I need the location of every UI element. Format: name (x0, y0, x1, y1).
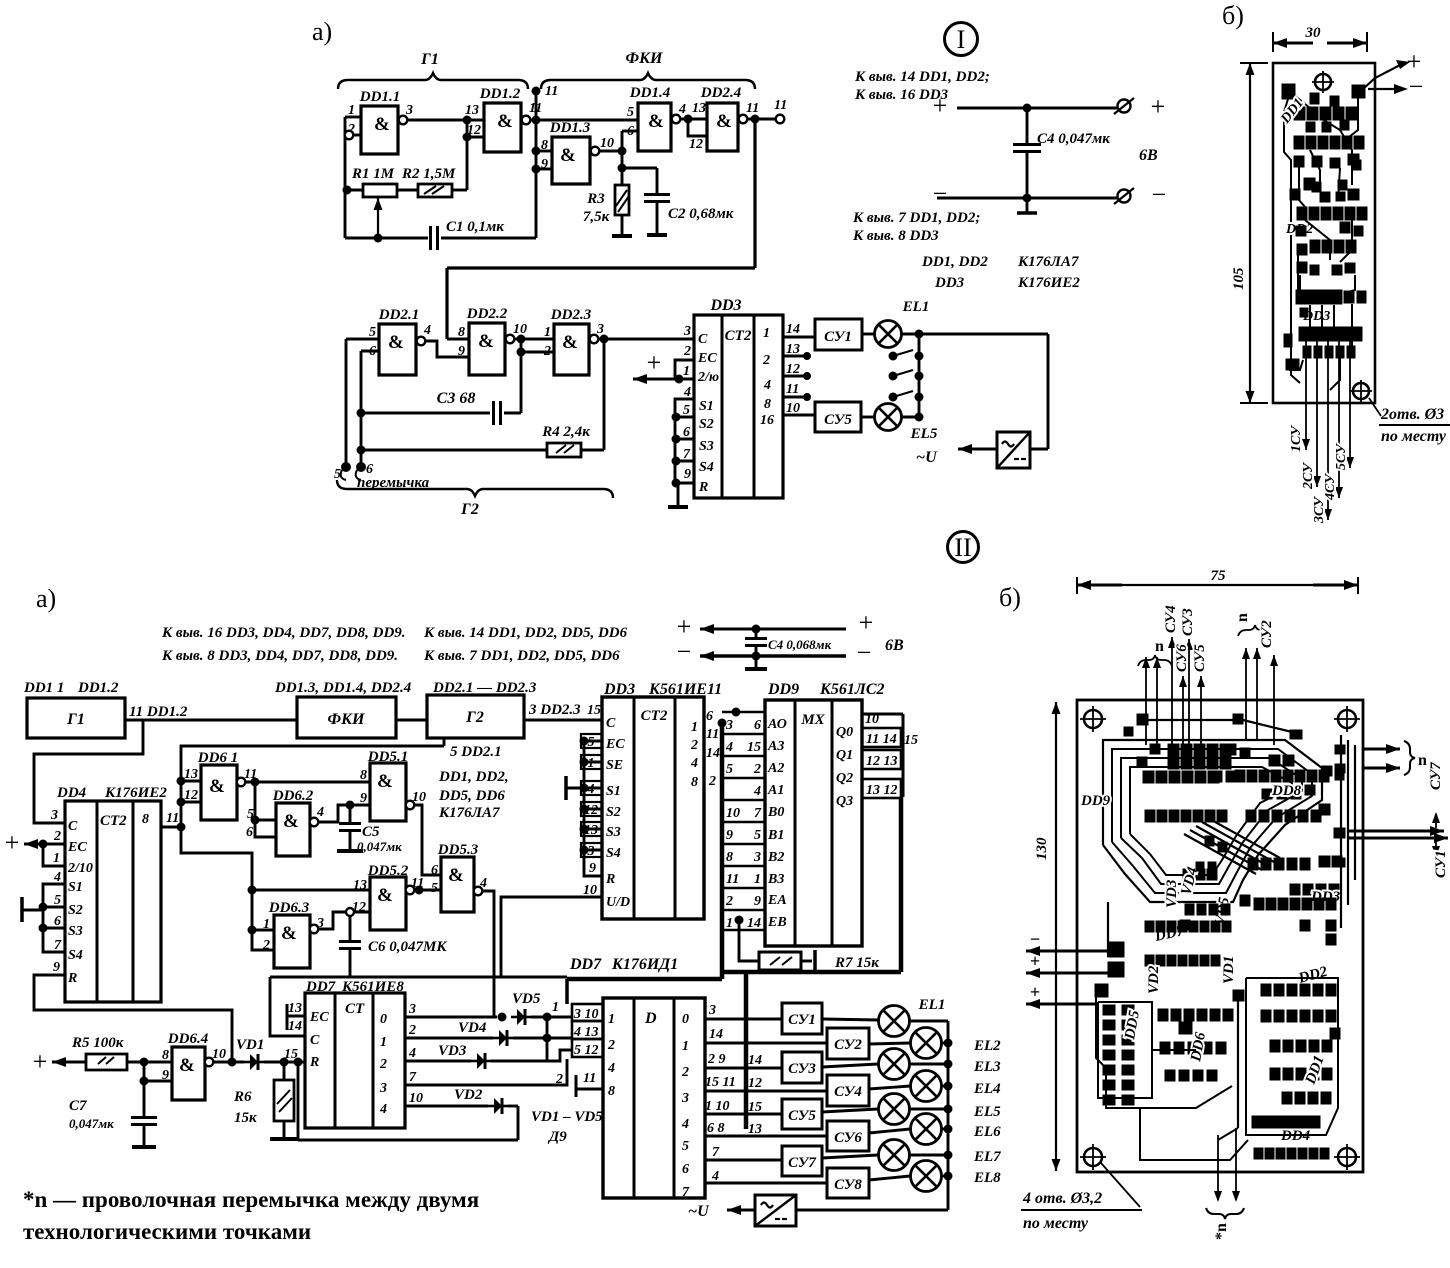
node pin15 (280, 1058, 288, 1066)
PCB I DD2 pads row1 (1297, 207, 1307, 220)
lamp EL1 (862, 299, 929, 348)
svg-text:2: 2 (683, 344, 691, 359)
svg-text:SE: SE (606, 758, 623, 773)
contact rail (918, 334, 921, 417)
svg-text:&: & (562, 332, 578, 353)
lamp EL4 (869, 1071, 1001, 1102)
svg-text:К выв. 14 DD1, DD2, DD5, DD: К выв. 14 DD1, DD2, DD5, DD6 (423, 625, 628, 641)
wire G2 pin5 net (443, 738, 446, 746)
PCB II pads row c (1145, 810, 1155, 822)
svg-text:DD1.4: DD1.4 (629, 85, 671, 101)
svg-text:а): а) (36, 584, 56, 613)
svg-text:DD4: DD4 (56, 785, 87, 801)
PCB II n brace top right (1238, 625, 1272, 636)
node DD2.3 out (598, 338, 694, 341)
gate DD2.2 (458, 306, 527, 375)
jog to DD2.4 pin12 (688, 119, 707, 136)
svg-text:4СУ: 4СУ (1323, 472, 1338, 501)
G2 brace (337, 480, 613, 498)
PCB II bottom arrows (1217, 1135, 1219, 1200)
gate DD6.1 (184, 750, 257, 820)
svg-text:ЕА: ЕА (767, 893, 787, 908)
svg-text:S1: S1 (606, 784, 621, 799)
svg-text:С1 0,1мк: С1 0,1мк (446, 219, 504, 235)
svg-text:R2 1,5М: R2 1,5М (401, 166, 456, 182)
svg-text:105: 105 (1231, 267, 1247, 290)
lamp EL2 (869, 1028, 1001, 1059)
PCB II DD6 pads (1158, 1009, 1168, 1021)
svg-text:&: & (448, 865, 464, 886)
svg-text:8: 8 (360, 768, 367, 783)
PCB II dim 130 (1055, 702, 1057, 736)
svg-text:С3 68: С3 68 (437, 390, 476, 407)
PCB II DD9 pads b (1143, 771, 1154, 783)
svg-text:DD1.3, DD1.4, DD2.4: DD1.3, DD1.4, DD2.4 (274, 680, 412, 696)
svg-text:2: 2 (53, 829, 61, 844)
svg-text:a): a) (312, 17, 332, 46)
svg-text:R5 100к: R5 100к (71, 1035, 124, 1051)
svg-text:C2 0,68мк: C2 0,68мк (668, 206, 734, 222)
svg-text:14: 14 (747, 916, 761, 931)
svg-text:DD5.1: DD5.1 (367, 749, 408, 765)
DD4 R return wire (34, 975, 232, 1062)
svg-text:DD9: DD9 (767, 681, 799, 698)
svg-text:7: 7 (682, 1185, 690, 1200)
svg-text:DD2.3: DD2.3 (550, 307, 592, 323)
svg-text:&: & (497, 111, 513, 132)
DD4 tbar (20, 897, 24, 922)
capacitor C1 0,1mk (345, 169, 536, 250)
PCB II star n brace (1206, 1208, 1244, 1219)
gate DD2.3 (543, 307, 604, 375)
svg-text:1: 1 (754, 872, 761, 887)
svg-text:−: − (1152, 180, 1167, 209)
svg-text:СУ6: СУ6 (1174, 644, 1190, 672)
svg-text:1 10: 1 10 (705, 1099, 730, 1114)
resistor R4 2,4k (357, 339, 604, 457)
block SU8 (827, 1168, 869, 1198)
svg-text:3: 3 (753, 850, 761, 865)
svg-text:14: 14 (786, 322, 800, 337)
svg-text:−: − (1409, 72, 1424, 101)
potentiometer arrow R1 (377, 198, 379, 236)
gate DD2.1 (369, 307, 431, 375)
svg-text:S2: S2 (606, 805, 621, 820)
svg-text:9: 9 (162, 1068, 169, 1083)
svg-text:2: 2 (408, 1023, 416, 1038)
svg-text:11: 11 (746, 101, 759, 116)
wire DD5.2 pin13 (252, 889, 370, 892)
DD4 EC bracket (43, 844, 65, 866)
svg-text:EL5: EL5 (910, 426, 938, 442)
counter DD3 K176IE2 (694, 297, 783, 498)
svg-text:11 14: 11 14 (866, 732, 897, 747)
PCB I DD2 pads row2 (1310, 240, 1320, 253)
PCB II n brace top left (1138, 655, 1172, 666)
svg-text:+: + (1030, 982, 1040, 1002)
svg-text:2: 2 (379, 1057, 387, 1072)
svg-text:16: 16 (760, 413, 774, 428)
wire DD1.2 out rail (530, 119, 638, 122)
PCB II board outline (1077, 700, 1363, 1172)
resistor R3 7,5k (583, 151, 632, 236)
svg-text:СУ1: СУ1 (824, 329, 852, 345)
svg-text:5: 5 (682, 1139, 689, 1154)
svg-text:15: 15 (587, 703, 601, 718)
svg-text:&: & (281, 923, 297, 944)
bus verticals DD9 region (720, 723, 725, 979)
lamp EL3 (822, 1049, 1001, 1080)
jog DD6.2 out to DD5.1 pin9 (318, 805, 370, 822)
svg-text:S3: S3 (606, 825, 621, 840)
wire EL5 junction (901, 416, 919, 419)
contact row 2 (889, 372, 897, 380)
svg-text:11: 11 (583, 1071, 596, 1086)
svg-text:1: 1 (763, 326, 770, 341)
DD7 output row0 wire (405, 1016, 497, 1019)
PCB I extra pads (1306, 122, 1315, 132)
PCB I dim 30 (1272, 32, 1274, 52)
PCB II hole top left (1084, 710, 1102, 728)
svg-text:14: 14 (748, 1053, 762, 1068)
svg-text:DD1, DD2: DD1, DD2 (921, 254, 988, 270)
svg-text:9: 9 (458, 344, 465, 359)
svg-text:2СУ: 2СУ (1301, 461, 1316, 490)
PCB I trace top (1284, 99, 1300, 383)
DD3 ground stub (677, 483, 680, 506)
SU row0 wire (705, 1018, 782, 1021)
svg-text:СУ3: СУ3 (788, 1061, 816, 1077)
svg-text:9: 9 (589, 861, 596, 876)
wire DD1.1 out to DD1.2 (407, 119, 484, 122)
PCB I DD1 pads row1 (1294, 107, 1305, 120)
svg-text:11: 11 (786, 382, 799, 397)
svg-text:ЕВ: ЕВ (767, 915, 787, 930)
svg-text:СУ1: СУ1 (1433, 850, 1449, 878)
decoder DD7 K176ID1 (569, 956, 705, 1200)
PCB I hole top (1315, 74, 1331, 90)
svg-text:1: 1 (682, 1039, 689, 1054)
gate DD2.4 (700, 85, 759, 151)
svg-text:&: & (478, 331, 494, 352)
DD4 S brackets (43, 884, 65, 907)
block SU5 II (782, 1099, 822, 1129)
counter DD4 K176IE2 (56, 785, 167, 1002)
svg-text:4: 4 (763, 378, 771, 393)
svg-text:DD3: DD3 (934, 275, 965, 291)
DD4 output 11 (161, 826, 183, 829)
svg-text:R: R (605, 872, 615, 887)
power converter II (755, 1195, 796, 1226)
C4 II ground (755, 656, 758, 668)
svg-text:3: 3 (405, 103, 413, 118)
lamp rail II (947, 1021, 950, 1210)
gate DD5.2 (352, 863, 424, 930)
node DD2.2 out (514, 338, 554, 341)
svg-text:9: 9 (684, 467, 691, 482)
DD9 Q out wires (901, 736, 903, 739)
svg-text:DD6.4: DD6.4 (167, 1031, 209, 1047)
svg-text:0: 0 (682, 1012, 689, 1027)
block SU5 (815, 402, 861, 432)
svg-text:S2: S2 (699, 417, 714, 432)
lamp EL1 II (822, 997, 948, 1037)
PCB II hole bottom right (1338, 1148, 1356, 1166)
svg-text:4: 4 (408, 1046, 416, 1061)
svg-text:EL2: EL2 (973, 1038, 1001, 1054)
PCB II pads row e (1248, 858, 1258, 870)
PCB II hole top right (1338, 710, 1356, 728)
svg-text:&: & (209, 776, 225, 797)
svg-text:R: R (698, 480, 708, 495)
svg-text:МХ: МХ (800, 712, 825, 728)
svg-text:VD4: VD4 (458, 1020, 487, 1036)
SU row3 wire (705, 1090, 827, 1093)
svg-text:1СУ: 1СУ (1289, 424, 1304, 452)
wire to DD4 C (34, 720, 143, 823)
svg-text:3: 3 (379, 1081, 387, 1096)
PCB II hole bottom left (1084, 1148, 1102, 1166)
PCB II top rail trace (1141, 719, 1238, 721)
lamp EL5 II (822, 1094, 1001, 1125)
SU row4 wire (705, 1113, 782, 1116)
svg-text:5: 5 (726, 762, 733, 777)
PCB II top arrows group2 (1245, 648, 1247, 740)
svg-text:6: 6 (754, 718, 761, 733)
svg-text:14: 14 (706, 746, 720, 761)
svg-text:СУ4: СУ4 (834, 1084, 862, 1100)
svg-text:DD1.2: DD1.2 (77, 680, 119, 696)
svg-text:СУ1: СУ1 (788, 1012, 816, 1028)
svg-text:СУ4: СУ4 (1163, 605, 1179, 633)
svg-text:S2: S2 (68, 903, 83, 918)
wires DD1.3 pins (536, 150, 552, 153)
PCB II left arrows (1026, 950, 1108, 953)
svg-text:В2: В2 (767, 850, 784, 865)
SU row1 wire (705, 1042, 827, 1045)
svg-text:К176ЛА7: К176ЛА7 (438, 805, 500, 821)
label I circled (945, 23, 978, 56)
svg-text:СУ2: СУ2 (1259, 620, 1275, 648)
thick rail to DD7-ID1 (567, 977, 722, 982)
DD7-ID1 pin boxes (572, 1004, 603, 1021)
svg-text:DD5.3: DD5.3 (437, 842, 479, 858)
svg-text:S3: S3 (699, 439, 714, 454)
svg-text:&: & (716, 111, 732, 132)
PCB II right vertical traces (1340, 735, 1342, 928)
resistor R7 15k (735, 916, 879, 972)
DD7 output row2 wire (405, 1060, 471, 1063)
svg-text:+: + (859, 608, 874, 637)
svg-text:2 9: 2 9 (707, 1052, 726, 1067)
svg-text:10: 10 (600, 136, 614, 151)
svg-text:К176ИД1: К176ИД1 (611, 956, 678, 973)
svg-text:14: 14 (288, 1019, 302, 1034)
diode VD1 (213, 1037, 305, 1070)
svg-text:3: 3 (50, 808, 58, 823)
plus arrow DD4 (24, 843, 43, 846)
svg-text:EC: EC (697, 351, 717, 366)
jog DD6.3 out to DD5.2 pin12 (318, 912, 370, 929)
svg-text:0: 0 (380, 1012, 387, 1027)
svg-text:13: 13 (288, 1001, 302, 1016)
svg-text:&: & (560, 145, 576, 166)
svg-text:2: 2 (753, 762, 761, 777)
svg-text:5: 5 (431, 881, 438, 896)
gate DD6.3 (262, 900, 324, 968)
svg-text:12: 12 (689, 137, 703, 152)
DD7 output row4 wire (405, 1105, 488, 1108)
output terminal 11 (747, 118, 776, 121)
svg-text:−: − (857, 638, 872, 667)
svg-text:15 11: 15 11 (705, 1075, 736, 1090)
wire EL1 to rail (901, 333, 1048, 336)
PCB I traces mid2 (1305, 220, 1330, 260)
block SU7 (782, 1146, 822, 1176)
svg-text:К выв. 8 DD3, DD4, DD7, DD8: К выв. 8 DD3, DD4, DD7, DD8, DD9. (161, 648, 398, 664)
svg-text:3: 3 (725, 718, 733, 733)
terminal circle plus (1118, 100, 1131, 113)
svg-text:4: 4 (423, 323, 431, 338)
svg-text:В3: В3 (767, 872, 784, 887)
wire DD1.3 out (599, 150, 622, 153)
svg-text:VD5: VD5 (512, 991, 541, 1007)
wire DD6.3 pin1 (252, 929, 274, 932)
C4 ground stub (1026, 198, 1029, 212)
svg-text:~U: ~U (916, 449, 938, 466)
svg-text:−: − (933, 179, 948, 208)
svg-text:EL1: EL1 (918, 997, 946, 1013)
svg-text:11: 11 (726, 872, 739, 887)
svg-text:&: & (283, 811, 299, 832)
svg-text:2отв. Ø3: 2отв. Ø3 (1380, 406, 1444, 423)
svg-text:EL4: EL4 (973, 1081, 1001, 1097)
svg-text:Q2: Q2 (836, 771, 853, 786)
svg-text:~U: ~U (688, 1203, 710, 1220)
gate DD5.3 (431, 842, 487, 912)
block SU3 (782, 1052, 822, 1083)
diode VD2 (454, 1087, 518, 1114)
svg-text:ФКИ: ФКИ (626, 50, 663, 67)
svg-text:R3: R3 (586, 191, 605, 207)
rail down to DD1.3 (535, 120, 538, 169)
svg-text:1: 1 (691, 720, 698, 735)
svg-text:К561ЛС2: К561ЛС2 (819, 681, 885, 698)
capacitor C3 68 (357, 390, 521, 425)
svg-text:C: C (606, 716, 616, 731)
svg-text:C: C (310, 1033, 320, 1048)
svg-text:DD7: DD7 (569, 956, 602, 973)
svg-text:8: 8 (142, 812, 149, 827)
svg-text:11: 11 (706, 727, 719, 742)
svg-text:+: + (933, 91, 948, 120)
svg-text:EL6: EL6 (973, 1124, 1001, 1140)
svg-text:R: R (309, 1055, 319, 1070)
PCB II connector pads left (1108, 942, 1124, 957)
svg-text:12: 12 (748, 1076, 762, 1091)
svg-text:4: 4 (316, 805, 324, 820)
wire vertical R2 to pin12 (466, 120, 469, 190)
svg-text:U/D: U/D (606, 895, 630, 910)
PCB II diagonal traces (1190, 830, 1262, 870)
label II circled (948, 532, 979, 563)
svg-text:СТ2: СТ2 (725, 328, 752, 344)
svg-text:DD5, DD6: DD5, DD6 (438, 788, 505, 804)
svg-text:1: 1 (53, 851, 60, 866)
block G1 II (23, 680, 125, 738)
svg-text:3: 3 (708, 1003, 716, 1018)
PCB I DD3 bar (1296, 290, 1342, 304)
svg-text:К выв. 7 DD1, DD2, DD5, DD6: К выв. 7 DD1, DD2, DD5, DD6 (423, 648, 620, 664)
gate DD1.2 (465, 86, 542, 152)
lamp EL5 (861, 404, 938, 443)
svg-text:Q0: Q0 (836, 725, 853, 740)
PCB II DD7 pads (1145, 921, 1154, 932)
wire DD5.2 out (414, 889, 441, 892)
block SU1 (815, 319, 862, 350)
svg-text:II: II (954, 533, 971, 562)
svg-text:5: 5 (754, 828, 761, 843)
svg-text:Д9: Д9 (547, 1129, 567, 1145)
svg-text:S4: S4 (606, 846, 621, 861)
svg-text:5 DD2.1: 5 DD2.1 (450, 744, 502, 760)
wire G1 to FKI (125, 719, 297, 722)
svg-text:C: C (698, 332, 708, 347)
diode VD3 (438, 1038, 572, 1069)
wire DD2.2 pin8 (447, 338, 469, 341)
wire converter to rail II (796, 1209, 948, 1212)
PCB I hole bottom (1353, 383, 1369, 399)
capacitor C4 II 0,068mk (745, 629, 832, 656)
svg-text:VD3: VD3 (438, 1043, 467, 1059)
PCB II bottom traces (1096, 997, 1232, 1108)
svg-text:5: 5 (247, 807, 254, 822)
svg-text:EL7: EL7 (973, 1149, 1001, 1165)
jog DD2.1 out to DD2.2 pin9 (425, 341, 469, 357)
svg-text:DD1.2: DD1.2 (479, 86, 521, 102)
svg-text:7: 7 (409, 1070, 417, 1085)
svg-text:&: & (648, 111, 664, 132)
svg-text:А2: А2 (767, 761, 784, 776)
svg-text:С7: С7 (69, 1098, 87, 1114)
svg-text:S1: S1 (699, 399, 714, 414)
svg-text:1: 1 (726, 916, 733, 931)
svg-text:ФКИ: ФКИ (328, 711, 365, 728)
AC arrow II (727, 1209, 755, 1212)
contact row 1 (889, 352, 897, 360)
capacitor C2 0,68mk (622, 168, 734, 235)
svg-text:&: & (179, 1055, 195, 1076)
svg-text:6В: 6В (1139, 147, 1158, 164)
svg-text:DD2.4: DD2.4 (700, 85, 742, 101)
reset return rail (297, 1062, 300, 1140)
svg-text:13: 13 (692, 101, 706, 116)
DD7 output row3 wire (405, 1059, 567, 1085)
gate DD5.1 (360, 749, 426, 821)
svg-text:К выв. 14 DD1, DD2;: К выв. 14 DD1, DD2; (854, 69, 990, 85)
terminal 5 (342, 463, 351, 472)
PCB I pad minus (1352, 85, 1365, 98)
svg-text:DD2.2: DD2.2 (466, 306, 508, 322)
gate DD6.2 (246, 788, 324, 856)
svg-text:8: 8 (726, 850, 733, 865)
svg-text:I: I (957, 25, 966, 54)
wires DD6.1 pins (181, 780, 201, 783)
svg-text:4: 4 (479, 876, 487, 891)
DD7 C pin wire (270, 977, 305, 1036)
plus arrow to 2/yu (633, 378, 677, 381)
svg-text:S1: S1 (68, 880, 83, 895)
